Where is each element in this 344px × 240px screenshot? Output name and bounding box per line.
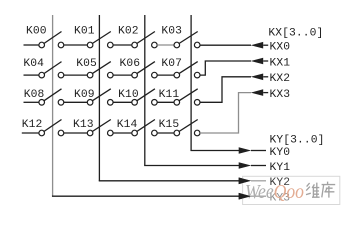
wire KX1 arrow tail xyxy=(263,60,268,62)
arrow KY3 (over watermark) xyxy=(239,193,252,200)
svg-text:KY[3..0]: KY[3..0] xyxy=(270,134,325,146)
wire KX3 arrow tail xyxy=(263,92,268,94)
column line 1 (net KY3 vertical) xyxy=(52,15,54,196)
wire KX2 arrow tail xyxy=(263,76,268,78)
svg-text:K04: K04 xyxy=(23,58,44,70)
svg-text:K12: K12 xyxy=(22,119,43,131)
key switch K09 xyxy=(87,89,113,105)
arrow KY0 xyxy=(239,147,252,154)
arrow KY1 xyxy=(239,162,252,169)
svg-text:K02: K02 xyxy=(118,26,139,38)
svg-text:K13: K13 xyxy=(73,119,94,131)
svg-text:K00: K00 xyxy=(26,26,47,38)
wire row 3 segment K08-K09 xyxy=(64,101,88,103)
watermark hanzi WeiKu xyxy=(306,182,335,198)
svg-text:K05: K05 xyxy=(76,58,97,70)
svg-text:KX3: KX3 xyxy=(270,89,291,101)
svg-text:K07: K07 xyxy=(161,58,182,70)
wire row 1 left stub xyxy=(24,44,39,46)
key switch K07 xyxy=(174,62,200,78)
svg-text:KY1: KY1 xyxy=(270,162,291,174)
arrow KX3 xyxy=(251,89,264,96)
wire row 4 segment K13-K14 xyxy=(113,132,132,134)
key switch K10 xyxy=(132,89,157,105)
arrow KX2 xyxy=(251,74,264,81)
key switch K12 xyxy=(39,120,64,136)
key switch K00 xyxy=(39,32,64,48)
svg-text:K15: K15 xyxy=(159,119,180,131)
arrow KY2 xyxy=(239,178,252,185)
svg-text:K14: K14 xyxy=(117,119,138,131)
wire row 3 left stub xyxy=(24,101,39,103)
wire row 4 left stub xyxy=(22,132,39,134)
arrow KX1 xyxy=(251,58,264,65)
wire net KX3 (jog from K15, faint) xyxy=(200,93,251,133)
key switch K14 xyxy=(132,120,157,136)
svg-text:KX0: KX0 xyxy=(270,42,291,54)
key switch K03 xyxy=(174,32,200,48)
wire KY0 arrow tail xyxy=(251,150,266,152)
wire row 1 segment K02-K03 xyxy=(157,44,174,46)
wire row 2 left stub xyxy=(24,74,39,76)
svg-text:KY2: KY2 xyxy=(270,177,291,189)
svg-text:KX2: KX2 xyxy=(270,73,291,85)
wire net KX2 (jog from K11) xyxy=(200,77,251,103)
svg-text:K11: K11 xyxy=(159,89,180,101)
svg-text:K03: K03 xyxy=(161,26,182,38)
wire row 2 segment K06-K07 xyxy=(157,74,174,76)
svg-text:K01: K01 xyxy=(74,26,95,38)
wire row 4 segment K14-K15 xyxy=(157,132,174,134)
wire row 3 segment K09-K10 xyxy=(113,101,132,103)
watermark box xyxy=(243,176,340,204)
column line 2 (net KY2 vertical) xyxy=(98,15,100,181)
key switch K11 xyxy=(174,89,200,105)
wire net KY0 horizontal xyxy=(190,150,239,152)
wire net KY3 horizontal xyxy=(52,195,239,197)
key switch K02 xyxy=(132,32,157,48)
key switch K05 xyxy=(87,62,113,78)
svg-text:K08: K08 xyxy=(24,89,45,101)
wire row 2 segment K05-K06 xyxy=(113,74,132,76)
column line 4 (net KY0 vertical) xyxy=(190,15,192,151)
svg-text:KX1: KX1 xyxy=(270,57,291,69)
column line 3 (net KY1 vertical) xyxy=(144,15,146,166)
wire row 2 segment K04-K05 xyxy=(64,74,88,76)
wire net KX1 (jog from K07) xyxy=(200,61,251,75)
svg-text:K09: K09 xyxy=(74,89,95,101)
wire KY1 arrow tail xyxy=(251,165,266,167)
arrow KY2 (over watermark) xyxy=(239,178,252,185)
wire row 3 segment K10-K11 xyxy=(157,101,174,103)
wire net KY1 horizontal xyxy=(144,165,239,167)
key switch K04 xyxy=(39,62,64,78)
wire row 1 segment K01-K02 xyxy=(113,44,132,46)
svg-text:K06: K06 xyxy=(120,58,141,70)
key switch K08 xyxy=(39,89,64,105)
svg-text:KX[3..0]: KX[3..0] xyxy=(268,28,323,40)
key switch K01 xyxy=(87,32,113,48)
arrow KY3 xyxy=(239,193,252,200)
svg-text:K10: K10 xyxy=(118,89,139,101)
key switch K15 xyxy=(174,120,200,136)
wire net KX0 xyxy=(200,44,251,46)
wire KY2 arrow tail xyxy=(251,180,266,182)
wire row 1 segment K00-K01 xyxy=(64,44,88,46)
key switch K13 xyxy=(87,120,113,136)
wire row 4 segment K12-K13 xyxy=(64,132,88,134)
wire KX0 arrow tail xyxy=(263,44,268,46)
key switch K06 xyxy=(132,62,157,78)
arrow KX0 xyxy=(251,42,264,49)
wire KY3 arrow tail xyxy=(251,195,266,197)
svg-text:KY0: KY0 xyxy=(270,147,291,159)
wire net KY2 horizontal xyxy=(99,180,239,182)
